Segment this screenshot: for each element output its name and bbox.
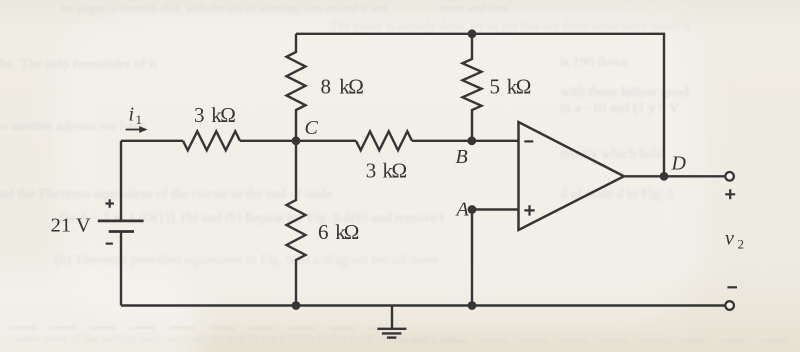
wire: op-amp output to terminal [624, 175, 725, 177]
resistor 5 kOhm (vertical, top rail to node B) [463, 34, 482, 141]
node C dot [292, 136, 301, 145]
svg-text:mostly which hold: mostly which hold [560, 147, 664, 162]
svg-text:(b) Thevenin provided equivale: (b) Thevenin provided equivalent in Fig.… [55, 253, 438, 268]
output terminal bottom (open circle) [725, 301, 734, 310]
wire: node A to op-amp + input [472, 208, 519, 210]
svg-text:8 kΩ: 8 kΩ [321, 75, 364, 99]
svg-text:o another adjoins we have: o another adjoins we have [0, 119, 146, 134]
wire: left branch below battery [120, 231, 122, 306]
svg-text:for A = 1 to 1 (O(1)). (b) and: for A = 1 to 1 (O(1)). (b) and (b) Repea… [60, 211, 444, 226]
output terminal top (open circle) [725, 172, 734, 181]
wire: node B to op-amp inverting input [412, 140, 519, 142]
node B dot [467, 136, 476, 145]
wire: left branch to first resistor [121, 140, 183, 142]
svg-text:1: 1 [136, 112, 143, 127]
svg-text:me pages in seconds that, with: me pages in seconds that, with the tint … [60, 1, 388, 15]
op-amp U1 triangle [519, 122, 625, 230]
wire: left branch above battery [120, 141, 122, 220]
faint dashed rules from reverse page [10, 328, 795, 341]
resistor R1 3 kOhm (horizontal, left) [183, 131, 240, 150]
node dot: top of 5k [468, 29, 477, 38]
svg-text:C: C [305, 117, 319, 139]
battery 21V short plate [109, 230, 134, 233]
node D dot [660, 172, 669, 181]
svg-text:more and then: more and then [440, 1, 509, 15]
svg-text:nd the Thevenin equivalent of: nd the Thevenin equivalent of the circui… [0, 187, 332, 202]
wire: bottom rail [121, 304, 725, 306]
resistor 6 kOhm (vertical, node C to bottom rail) [287, 141, 306, 306]
svg-text:B: B [456, 146, 468, 168]
svg-text:6 kΩ: 6 kΩ [318, 220, 359, 244]
svg-text:with these follow good: with these follow good [560, 85, 689, 100]
wire: first resistor to node C to second resistor [240, 140, 356, 142]
battery minus sign [106, 243, 113, 245]
resistor R2 3 kOhm (horizontal, right) [356, 131, 412, 150]
battery 21V long plate [98, 219, 144, 222]
current arrow i1 [126, 129, 141, 131]
svg-text:in a −10 and (1 y 9 V: in a −10 and (1 y 9 V [560, 101, 679, 116]
wire: top feedback rail from 8k top to D column [296, 34, 664, 177]
svg-text:i: i [129, 104, 135, 126]
output terminal plus sign [725, 189, 735, 199]
op-amp minus sign [524, 140, 533, 142]
svg-text:v: v [725, 228, 734, 250]
junction dot: A column bottom [468, 301, 477, 310]
svg-text:3 kΩ: 3 kΩ [194, 103, 236, 127]
wire: node A down to bottom rail [471, 210, 473, 306]
arrowhead of i1 [139, 126, 148, 133]
resistor 8 kOhm (vertical, top rail to node C) [287, 34, 306, 141]
svg-text:is 190 down: is 190 down [560, 55, 628, 70]
svg-text:2: 2 [738, 237, 745, 252]
ground symbol [391, 306, 393, 329]
junction dot: 6k bottom [292, 301, 301, 310]
output terminal minus sign [727, 286, 737, 288]
svg-text:The paper is already done, let: The paper is already done, let us get th… [330, 18, 690, 33]
svg-text:5 kΩ: 5 kΩ [490, 75, 532, 99]
battery plus sign [106, 199, 114, 207]
svg-text:3 kΩ: 3 kΩ [366, 159, 407, 183]
svg-text:A: A [455, 199, 470, 221]
svg-text:21 V: 21 V [51, 214, 91, 236]
node A dot [468, 205, 477, 214]
svg-text:he. The only remainder of it: he. The only remainder of it [0, 57, 157, 72]
op-amp plus sign [524, 205, 534, 215]
svg-text:D: D [671, 153, 687, 175]
